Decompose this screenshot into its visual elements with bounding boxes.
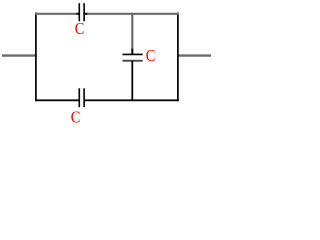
wire: middle branch upper segment: [131, 13, 133, 55]
wire: bottom rail right segment: [85, 99, 179, 101]
capacitor C1 (top) plates: [79, 3, 84, 21]
svg-text:C: C: [71, 108, 81, 127]
svg-text:C: C: [75, 19, 85, 38]
wire: left vertical bus (node A): [35, 13, 37, 102]
capacitor C2 (bottom) plates: [79, 88, 84, 107]
wire: right vertical bus (node B): [177, 13, 179, 102]
wire: left external lead: [2, 54, 37, 56]
wire: middle branch lower segment: [131, 61, 133, 101]
wire: bottom rail left segment: [35, 99, 79, 101]
label C2 value "C": [71, 108, 81, 127]
wire: top rail left segment: [35, 13, 79, 15]
svg-text:C: C: [146, 46, 156, 65]
capacitor C3 (middle) plates: [123, 54, 143, 60]
label C1 value "C": [75, 19, 85, 38]
wire: right external lead: [177, 54, 211, 56]
wire: top rail right segment: [85, 13, 179, 15]
label C3 value "C": [146, 46, 156, 65]
